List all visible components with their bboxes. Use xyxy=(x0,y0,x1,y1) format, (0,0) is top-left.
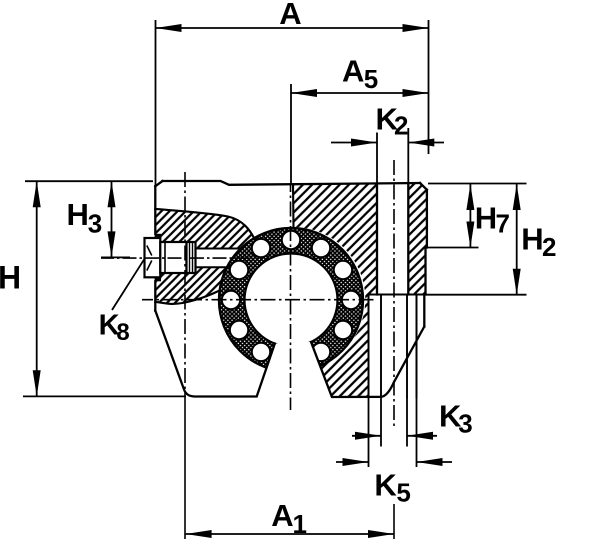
screw head xyxy=(145,238,161,277)
top edge with small step xyxy=(163,181,421,185)
left slot edge, bottom, left slope xyxy=(155,311,274,397)
K3 xyxy=(352,435,381,437)
top-right chamfer xyxy=(420,183,427,190)
A xyxy=(155,20,157,186)
H7 xyxy=(426,247,479,249)
svg-text:3: 3 xyxy=(458,408,472,438)
extension lines below body for K3/K5 xyxy=(369,397,417,467)
bore circle xyxy=(245,254,338,347)
svg-text:8: 8 xyxy=(116,319,129,346)
svg-text:H: H xyxy=(0,259,21,295)
cage stipple annulus xyxy=(219,228,363,372)
K2 xyxy=(376,133,378,185)
svg-text:2: 2 xyxy=(394,111,408,141)
H2 xyxy=(428,183,527,185)
center lines xyxy=(101,158,394,539)
hatched strip right of mounting hole xyxy=(408,184,427,295)
boss lower boundary curve xyxy=(155,291,219,304)
svg-text:H: H xyxy=(521,222,543,257)
step line at H2 level xyxy=(369,294,427,296)
left edge (interrupted by screw) xyxy=(154,186,156,310)
dimension and extension lines xyxy=(23,20,527,534)
svg-text:H: H xyxy=(67,197,89,232)
svg-text:A: A xyxy=(342,53,364,88)
top-left chamfer xyxy=(155,181,162,186)
svg-text:2: 2 xyxy=(542,232,556,262)
H3 xyxy=(111,181,113,257)
right hole centerline xyxy=(393,158,395,426)
K5 xyxy=(336,461,369,463)
svg-text:H: H xyxy=(475,201,497,236)
bore white xyxy=(246,255,337,346)
screw axis xyxy=(101,257,250,259)
hatched housing section right (main) xyxy=(293,184,377,397)
screw nose xyxy=(187,242,196,273)
horizontal bore centerline xyxy=(142,299,374,301)
body outlines xyxy=(155,181,427,397)
svg-text:1: 1 xyxy=(293,509,307,539)
hex socket cone xyxy=(147,246,152,271)
svg-text:3: 3 xyxy=(88,209,102,239)
svg-text:K: K xyxy=(374,467,397,502)
hatched housing section left boss (upper part) xyxy=(155,209,254,249)
svg-text:5: 5 xyxy=(364,64,378,94)
bearing cage ring with balls (masked by bottom opening wedge) xyxy=(219,228,363,372)
svg-text:7: 7 xyxy=(496,209,510,239)
clamping screw K8: washer (black tabs) xyxy=(155,234,161,281)
K3 hole lines xyxy=(381,295,407,398)
balls xyxy=(222,231,360,361)
boss upper boundary curve xyxy=(155,209,254,239)
K8 leader xyxy=(112,259,145,310)
right taper, bottom, right slot edge xyxy=(311,327,424,398)
svg-text:A: A xyxy=(271,498,293,533)
H xyxy=(25,180,153,182)
svg-text:5: 5 xyxy=(396,478,410,508)
cage outer circle xyxy=(219,228,363,372)
right hatch left boundary xyxy=(292,185,295,227)
A1 xyxy=(186,533,394,535)
vertical bore centerline xyxy=(290,184,292,410)
mounting hole top section walls xyxy=(377,184,408,295)
screw shank xyxy=(160,242,186,273)
arrowheads xyxy=(33,24,521,538)
svg-text:A: A xyxy=(279,0,301,31)
right face with jogs xyxy=(424,190,427,327)
screw bore channel xyxy=(196,249,241,268)
counterbore walls xyxy=(369,295,417,398)
left hole centerline xyxy=(184,172,186,397)
A5 xyxy=(290,84,292,184)
hatched housing section left boss (lower part) xyxy=(155,267,227,304)
